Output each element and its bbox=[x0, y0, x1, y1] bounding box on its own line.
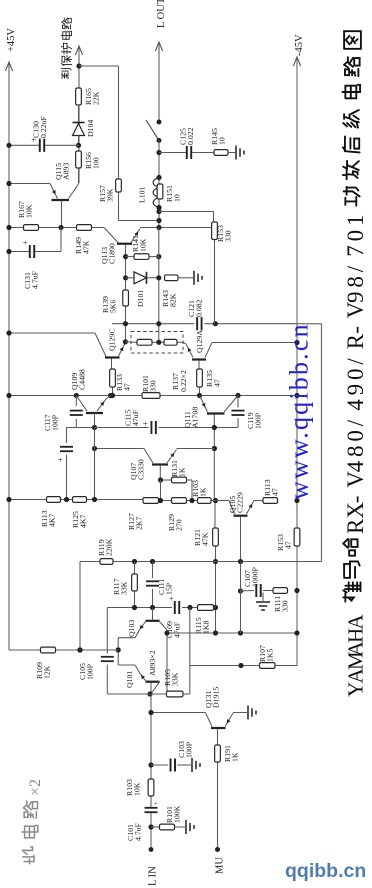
label Q131 bbox=[204, 687, 221, 708]
node J45 bbox=[132, 605, 137, 610]
wire -45V rail bbox=[296, 57, 298, 666]
transistor Q105 bbox=[216, 501, 264, 562]
svg-text:+: + bbox=[20, 240, 30, 245]
svg-text:100P: 100P bbox=[254, 412, 263, 429]
capacitor C115b bbox=[55, 446, 73, 462]
resistor R137b bbox=[164, 339, 177, 345]
capacitor C119 bbox=[214, 396, 262, 430]
svg-text:R: R bbox=[343, 518, 368, 534]
capacitor C121 bbox=[187, 299, 204, 330]
svg-text:C4488: C4488 bbox=[78, 369, 87, 390]
svg-text:47K: 47K bbox=[201, 532, 210, 546]
wire to-protection line bbox=[78, 46, 80, 183]
wire bias row bbox=[80, 561, 322, 563]
node J21 bbox=[6, 393, 11, 398]
arrow L OUT bbox=[155, 42, 162, 51]
resistor R135 bbox=[197, 369, 222, 396]
label Q107 bbox=[129, 459, 146, 480]
resistor R131 bbox=[161, 460, 193, 500]
svg-text:Q101: Q101 bbox=[125, 671, 134, 688]
node MU bbox=[215, 847, 220, 852]
wire vas row bbox=[167, 632, 297, 634]
svg-text:1K: 1K bbox=[199, 487, 208, 497]
svg-text:L101: L101 bbox=[138, 186, 147, 203]
wire to R157 bbox=[79, 66, 159, 221]
wire drive line bbox=[159, 212, 216, 634]
node J49 bbox=[77, 647, 82, 652]
svg-text:4.7uF: 4.7uF bbox=[31, 270, 40, 289]
resistor R103 bbox=[191, 480, 211, 503]
resistor R156 bbox=[76, 151, 101, 169]
label +45V bbox=[6, 28, 17, 52]
node J20 bbox=[294, 340, 299, 345]
wire input row bbox=[107, 607, 215, 609]
wire L IN line bbox=[150, 695, 152, 850]
svg-text:100K: 100K bbox=[173, 805, 182, 823]
svg-text:100P: 100P bbox=[185, 741, 194, 758]
svg-text:L IN: L IN bbox=[148, 866, 159, 886]
node J39 bbox=[158, 498, 163, 503]
svg-text:/: / bbox=[343, 358, 368, 365]
svg-text:39K: 39K bbox=[106, 188, 115, 202]
svg-text:Q103: Q103 bbox=[127, 620, 136, 637]
resistor R165 bbox=[76, 88, 101, 105]
capacitor C109 bbox=[165, 596, 182, 638]
node J4 bbox=[6, 181, 11, 186]
svg-text:10: 10 bbox=[218, 137, 227, 145]
node J3 bbox=[6, 143, 11, 148]
svg-text:47: 47 bbox=[213, 379, 222, 387]
svg-text:/: / bbox=[343, 419, 368, 426]
node J33 bbox=[213, 605, 218, 610]
node J14 bbox=[123, 275, 128, 280]
node J52 bbox=[238, 630, 243, 635]
transistor Q113 bbox=[104, 228, 140, 257]
capacitor C131 bbox=[20, 240, 40, 289]
node J24 bbox=[235, 393, 240, 398]
svg-text:MU: MU bbox=[215, 857, 226, 874]
svg-text:330: 330 bbox=[224, 230, 233, 242]
resistor R151 bbox=[157, 184, 181, 202]
label Q109 bbox=[70, 369, 87, 390]
node J16 bbox=[156, 321, 161, 326]
label Q115 bbox=[54, 163, 71, 180]
svg-text:A: A bbox=[344, 614, 368, 630]
svg-text:9: 9 bbox=[343, 384, 368, 396]
label L OUT bbox=[156, 0, 167, 28]
node J18 bbox=[6, 321, 128, 336]
node J47 bbox=[187, 605, 192, 610]
node J6 bbox=[156, 175, 161, 180]
resistor R125 bbox=[71, 497, 88, 528]
resistor R167 bbox=[17, 201, 39, 230]
node J12 bbox=[156, 225, 161, 230]
resistor R133 bbox=[110, 369, 132, 396]
capacitor C115 bbox=[124, 409, 157, 434]
wire x160 bbox=[160, 480, 162, 501]
svg-text:47: 47 bbox=[123, 383, 132, 391]
transistor Q107 bbox=[144, 449, 177, 481]
resistor R105 bbox=[150, 669, 190, 697]
wire mid rail bbox=[9, 395, 297, 397]
resistor R115 bbox=[194, 605, 214, 634]
watermark qqibb.cn bbox=[285, 860, 366, 882]
node J15 bbox=[156, 275, 161, 280]
ground G4 bbox=[248, 706, 256, 720]
svg-text:1K: 1K bbox=[178, 467, 187, 477]
label Q111 bbox=[183, 407, 200, 428]
transistor Q131 bbox=[151, 713, 233, 850]
node J1 bbox=[76, 63, 81, 68]
wire VI limiter row bbox=[112, 324, 322, 562]
transistor Q111 bbox=[200, 396, 239, 428]
node J17 bbox=[213, 321, 218, 326]
node J13 bbox=[123, 254, 161, 259]
svg-text:/: / bbox=[343, 265, 368, 272]
resistor R103b bbox=[125, 779, 154, 796]
wire collector row bbox=[140, 227, 214, 229]
svg-text:8: 8 bbox=[343, 276, 368, 288]
label A893x2 bbox=[148, 650, 157, 676]
node J43 bbox=[150, 559, 155, 564]
svg-text:C3330: C3330 bbox=[137, 459, 146, 480]
svg-text:+: + bbox=[166, 596, 176, 601]
resistor R127 bbox=[127, 498, 159, 530]
node J51 bbox=[213, 630, 218, 635]
resistor R117 bbox=[112, 562, 137, 608]
node J48 bbox=[116, 647, 121, 652]
wire tail row bbox=[9, 649, 118, 651]
resistor R109 bbox=[35, 647, 56, 679]
node J7 bbox=[156, 205, 161, 210]
svg-text:47: 47 bbox=[284, 541, 293, 549]
diode D104 bbox=[73, 105, 96, 145]
resistor R101 bbox=[141, 375, 160, 398]
node J40 bbox=[189, 498, 194, 503]
svg-text:1K: 1K bbox=[231, 752, 240, 762]
resistor R143 bbox=[161, 275, 178, 307]
svg-text:82K: 82K bbox=[169, 293, 178, 307]
ground G5 bbox=[192, 758, 200, 772]
svg-text:0.22uF: 0.22uF bbox=[39, 115, 48, 138]
wire gnd base bbox=[233, 712, 248, 714]
svg-text:47: 47 bbox=[271, 488, 280, 496]
svg-text:8: 8 bbox=[343, 446, 368, 458]
ground G2 bbox=[178, 271, 202, 285]
transistor Q129A bbox=[183, 342, 297, 369]
svg-text:4: 4 bbox=[343, 399, 368, 411]
svg-text:47uF: 47uF bbox=[173, 621, 182, 638]
svg-text:1000P: 1000P bbox=[251, 566, 260, 587]
resistor R107 bbox=[258, 645, 275, 668]
svg-text:4K7: 4K7 bbox=[48, 513, 57, 527]
svg-text:33K: 33K bbox=[171, 672, 180, 686]
ground G3 bbox=[256, 593, 270, 611]
diode D101 bbox=[126, 272, 159, 307]
node J54 bbox=[238, 588, 243, 593]
svg-text:+: + bbox=[153, 801, 160, 805]
svg-text:220K: 220K bbox=[105, 538, 114, 556]
svg-text:12K: 12K bbox=[43, 665, 52, 679]
capacitor C111 bbox=[146, 562, 174, 608]
transistor Q101 bbox=[118, 665, 159, 697]
resistor R157 bbox=[98, 179, 121, 202]
wire Q111 base row bbox=[95, 427, 215, 429]
node J34 bbox=[92, 446, 97, 451]
ground G1 bbox=[228, 146, 244, 160]
inductor L101 bbox=[138, 178, 160, 208]
resistor R139 bbox=[101, 290, 128, 313]
wire +45V rail bbox=[8, 62, 10, 650]
svg-text:4.7uF: 4.7uF bbox=[134, 822, 143, 841]
svg-text:-: - bbox=[343, 326, 368, 334]
svg-text:47uF: 47uF bbox=[131, 409, 140, 426]
svg-text:4K7: 4K7 bbox=[79, 514, 88, 528]
label -45V bbox=[294, 34, 305, 56]
svg-text:A893: A893 bbox=[62, 163, 71, 180]
svg-text:7: 7 bbox=[343, 245, 368, 257]
caption title bbox=[342, 31, 368, 697]
wire emitter row bbox=[125, 341, 183, 344]
node J37 bbox=[64, 497, 69, 502]
svg-text:L OUT: L OUT bbox=[156, 0, 167, 28]
node J2 bbox=[76, 143, 81, 148]
node J32 bbox=[213, 559, 218, 564]
capacitor C101 bbox=[126, 801, 160, 841]
resistor R111 bbox=[273, 588, 290, 612]
resistor R191 bbox=[215, 745, 240, 762]
node J28 bbox=[92, 425, 97, 430]
node LIN bbox=[149, 847, 154, 852]
svg-text:0: 0 bbox=[343, 369, 368, 381]
svg-text:10: 10 bbox=[173, 194, 182, 202]
transistor Q115 bbox=[9, 168, 79, 228]
node J19 bbox=[156, 340, 161, 345]
node J26 bbox=[74, 393, 79, 398]
resistor R113 bbox=[40, 497, 61, 527]
svg-text:+: + bbox=[29, 137, 39, 142]
resistor R119 bbox=[97, 538, 114, 564]
wire R119 drop bbox=[77, 562, 82, 653]
wire bias vertical bbox=[158, 228, 160, 343]
svg-text:270: 270 bbox=[175, 519, 184, 531]
svg-text:10K: 10K bbox=[133, 782, 142, 796]
label Q103 bbox=[127, 620, 136, 637]
svg-text:Q129A: Q129A bbox=[195, 330, 204, 353]
transistor Q109 bbox=[76, 396, 110, 428]
label Q113 bbox=[100, 243, 117, 264]
wire x94.5 bbox=[94, 428, 96, 500]
node J9 bbox=[6, 225, 11, 230]
node J55 bbox=[294, 588, 299, 593]
node J10 bbox=[58, 225, 63, 230]
label Q129C bbox=[108, 328, 117, 351]
node J29 bbox=[212, 425, 217, 430]
wire L OUT line bbox=[158, 42, 160, 122]
node J58 bbox=[148, 762, 153, 767]
svg-text:A1708: A1708 bbox=[191, 407, 200, 428]
node J22 bbox=[110, 393, 115, 398]
watermark www.qqibb.cn bbox=[285, 322, 314, 500]
capacitor C125 bbox=[179, 127, 196, 159]
svg-text:1: 1 bbox=[343, 215, 368, 227]
node J23 bbox=[197, 393, 202, 398]
label 此电路x2 bbox=[22, 779, 44, 864]
resistor R153b bbox=[276, 528, 300, 551]
node J30 bbox=[212, 446, 217, 451]
wire base row bbox=[9, 227, 104, 229]
svg-text:D104: D104 bbox=[86, 120, 95, 137]
node J8 bbox=[156, 209, 161, 223]
node J42 bbox=[132, 559, 137, 564]
label MU bbox=[215, 857, 226, 874]
wire fb row bbox=[9, 500, 216, 501]
node J31 bbox=[213, 498, 218, 503]
wire y448 bbox=[95, 448, 215, 450]
power +45V arrow bbox=[5, 62, 12, 71]
node J5 bbox=[156, 150, 161, 155]
node J46 bbox=[150, 605, 155, 610]
node J41 bbox=[294, 498, 299, 503]
capacitor C107 bbox=[243, 566, 262, 597]
resistor R129 bbox=[167, 498, 187, 531]
svg-text:D101: D101 bbox=[136, 290, 145, 307]
node J11 bbox=[6, 249, 11, 254]
arrow to protection bbox=[75, 46, 82, 55]
svg-text:2K7: 2K7 bbox=[135, 516, 144, 530]
svg-text:+: + bbox=[140, 421, 150, 426]
node J36 bbox=[6, 497, 11, 502]
wire Q129C base bbox=[9, 332, 95, 334]
node J57 bbox=[148, 710, 153, 715]
svg-text:1K5: 1K5 bbox=[266, 648, 275, 662]
svg-text:+: + bbox=[55, 457, 65, 462]
svg-text:×2: ×2 bbox=[27, 779, 44, 796]
arrow -45V bbox=[293, 57, 300, 66]
resistor R153 bbox=[212, 222, 233, 242]
switch relay bbox=[146, 120, 161, 228]
node J59 bbox=[148, 824, 153, 829]
capacitor C130 bbox=[29, 115, 49, 151]
svg-text:10K: 10K bbox=[25, 204, 34, 218]
svg-text:-45V: -45V bbox=[294, 34, 305, 56]
svg-text:0.082: 0.082 bbox=[195, 299, 204, 317]
svg-text:47K: 47K bbox=[82, 240, 91, 254]
capacitor C103 bbox=[170, 741, 194, 771]
svg-text:0.22×2: 0.22×2 bbox=[179, 370, 188, 392]
resistor R141 bbox=[126, 235, 159, 259]
svg-text:C2229: C2229 bbox=[236, 492, 245, 513]
svg-text:C1890: C1890 bbox=[108, 243, 117, 264]
dashed pair box bbox=[131, 332, 183, 354]
node J35 bbox=[158, 477, 163, 482]
label R137 bbox=[171, 370, 188, 392]
svg-text:0: 0 bbox=[343, 430, 368, 442]
svg-text:4: 4 bbox=[343, 460, 368, 472]
label Q129A bbox=[195, 330, 204, 353]
svg-text:D1915: D1915 bbox=[212, 687, 221, 708]
svg-text:10K: 10K bbox=[139, 238, 148, 252]
svg-text:+45V: +45V bbox=[6, 28, 17, 52]
svg-text:0.022: 0.022 bbox=[186, 127, 195, 145]
svg-text:330: 330 bbox=[281, 600, 290, 612]
svg-text:330: 330 bbox=[149, 380, 158, 392]
wire x190 drop bbox=[189, 608, 191, 695]
wire C131 row bbox=[9, 228, 61, 252]
wire emitter v bbox=[67, 428, 77, 500]
node J38 bbox=[92, 497, 97, 502]
wire C125 row bbox=[159, 152, 214, 154]
svg-text:100: 100 bbox=[92, 157, 101, 169]
svg-text:A893×2: A893×2 bbox=[148, 650, 157, 676]
label Q101 bbox=[125, 671, 134, 688]
resistor R121 bbox=[193, 528, 218, 546]
wire Q113 emitter line bbox=[125, 257, 127, 342]
svg-text:R: R bbox=[343, 333, 368, 349]
node J56 bbox=[238, 663, 243, 668]
resistor R137a bbox=[137, 339, 152, 345]
label Q105 bbox=[228, 492, 245, 513]
resistor R149 bbox=[74, 225, 92, 254]
capacitor C117 bbox=[43, 396, 95, 432]
wire c107 row bbox=[241, 562, 274, 634]
svg-text:1K8: 1K8 bbox=[202, 620, 211, 634]
svg-text:33K: 33K bbox=[120, 581, 129, 595]
node J50 bbox=[164, 630, 169, 635]
node J25 bbox=[294, 393, 299, 398]
svg-text:Q129C: Q129C bbox=[108, 328, 117, 351]
svg-text:100P: 100P bbox=[51, 414, 60, 431]
resistor R113b bbox=[263, 479, 280, 503]
ground G6 bbox=[186, 820, 194, 834]
node J27 bbox=[108, 393, 113, 398]
node J44 bbox=[238, 559, 243, 564]
svg-text:22K: 22K bbox=[92, 91, 101, 105]
wire r107 row bbox=[190, 665, 297, 667]
transistor Q103 bbox=[118, 608, 167, 692]
resistor R101b bbox=[151, 805, 186, 830]
capacitor C105 bbox=[78, 608, 150, 695]
svg-text:5K6: 5K6 bbox=[109, 299, 118, 313]
svg-text:100P: 100P bbox=[86, 663, 95, 680]
svg-text:qqibb.cn: qqibb.cn bbox=[285, 860, 366, 882]
svg-text:0: 0 bbox=[343, 230, 368, 242]
svg-text:-: - bbox=[343, 496, 368, 504]
svg-text:9: 9 bbox=[343, 292, 368, 304]
node J53 bbox=[294, 630, 299, 635]
resistor R145 bbox=[210, 128, 228, 155]
label L IN bbox=[148, 866, 159, 886]
label 到保护电路 bbox=[61, 18, 72, 79]
svg-text:www.qqibb.cn: www.qqibb.cn bbox=[285, 322, 314, 500]
transistor Q129C bbox=[95, 333, 128, 369]
svg-text:15P: 15P bbox=[165, 582, 174, 595]
wire C130 row bbox=[9, 144, 79, 146]
wire c103 row bbox=[151, 764, 192, 766]
